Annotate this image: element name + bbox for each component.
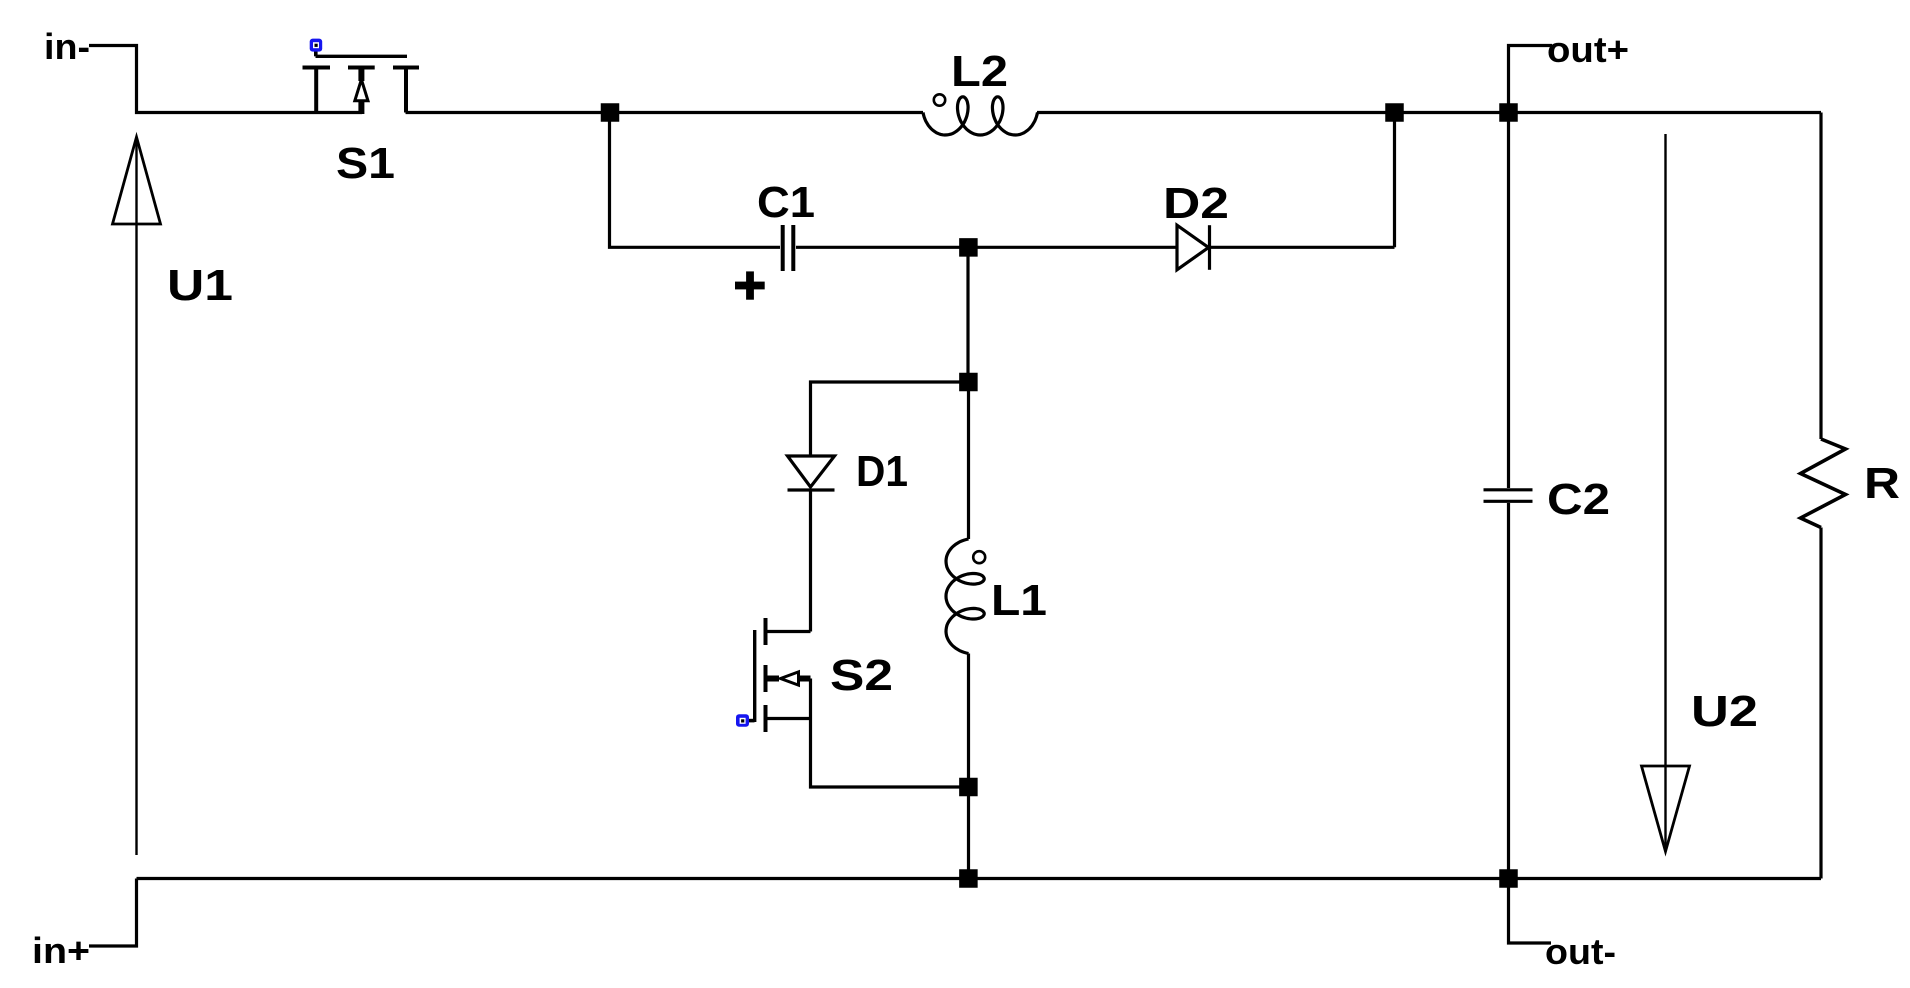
svg-text:D1: D1 (856, 447, 908, 496)
svg-text:L2: L2 (951, 47, 1008, 96)
svg-text:U1: U1 (167, 261, 233, 310)
svg-text:C1: C1 (757, 178, 815, 227)
svg-text:R: R (1864, 459, 1900, 508)
svg-text:U2: U2 (1691, 687, 1758, 736)
svg-text:L1: L1 (991, 576, 1047, 625)
svg-text:S2: S2 (830, 651, 893, 700)
svg-text:in-: in- (44, 26, 90, 67)
svg-text:in+: in+ (32, 930, 90, 971)
svg-text:out+: out+ (1547, 29, 1629, 70)
svg-text:C2: C2 (1547, 475, 1610, 524)
svg-text:D2: D2 (1163, 179, 1229, 228)
svg-text:S1: S1 (336, 139, 395, 188)
svg-text:out-: out- (1545, 931, 1616, 972)
